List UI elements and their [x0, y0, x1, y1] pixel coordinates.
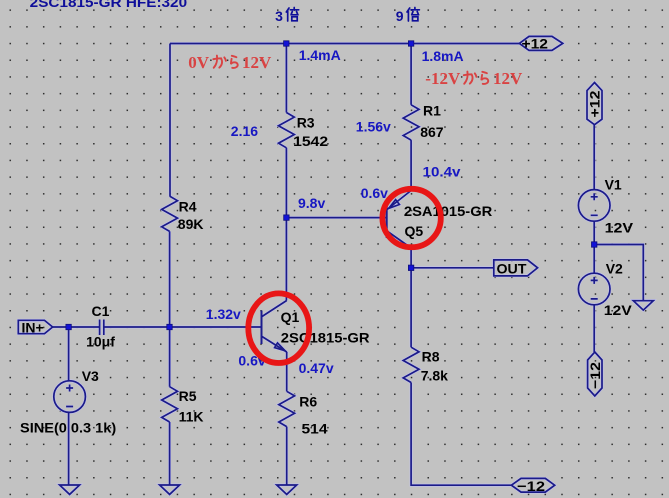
- junction node OUT: [408, 265, 413, 270]
- svg-text:10μf: 10μf: [86, 334, 115, 350]
- svg-text:V1: V1: [605, 177, 622, 193]
- svg-text:Q5: Q5: [405, 223, 424, 239]
- svg-text:12V: 12V: [604, 302, 633, 318]
- svg-text:1542: 1542: [293, 133, 328, 149]
- svg-text:Q1: Q1: [281, 309, 300, 325]
- svg-text:V2: V2: [606, 260, 623, 276]
- svg-text:7.8k: 7.8k: [421, 368, 448, 384]
- svg-text:11K: 11K: [179, 408, 204, 424]
- svg-text:R8: R8: [422, 349, 440, 365]
- svg-text:2.16: 2.16: [231, 123, 258, 139]
- svg-text:2SA1015-GR: 2SA1015-GR: [404, 203, 492, 219]
- svg-text:R1: R1: [423, 103, 441, 119]
- svg-text:0V: 0V: [188, 53, 210, 72]
- junction node supply mid: [592, 242, 597, 247]
- transistor Q5 base bar: [386, 206, 388, 238]
- svg-text:R6: R6: [299, 393, 317, 409]
- svg-text:9.8v: 9.8v: [298, 195, 325, 211]
- svg-text:+12: +12: [522, 36, 549, 52]
- svg-text:1.56v: 1.56v: [356, 118, 391, 134]
- svg-text:12V: 12V: [242, 53, 272, 72]
- svg-text:+12: +12: [587, 90, 603, 117]
- junction node top R3: [284, 41, 289, 46]
- kanji bai 2: [407, 8, 419, 22]
- junction node left branch IN: [167, 324, 172, 329]
- svg-text:514: 514: [302, 420, 328, 436]
- junction node IN/V3: [66, 324, 71, 329]
- svg-text:2SC1815-GR: 2SC1815-GR: [281, 330, 370, 346]
- svg-text:IN+: IN+: [22, 319, 44, 335]
- junction node top R1: [408, 41, 413, 46]
- svg-text:R3: R3: [297, 114, 315, 130]
- svg-text:−12: −12: [587, 362, 603, 389]
- red circle around Q1: [248, 293, 309, 363]
- svg-text:R4: R4: [179, 199, 197, 215]
- kanji bai 1: [286, 8, 298, 22]
- svg-text:OUT: OUT: [497, 260, 527, 276]
- svg-text:SINE(0 0.3 1k): SINE(0 0.3 1k): [20, 420, 116, 436]
- svg-text:C1: C1: [92, 303, 110, 319]
- svg-text:867: 867: [420, 124, 444, 140]
- svg-text:1.32v: 1.32v: [206, 306, 241, 322]
- svg-text:3: 3: [275, 8, 283, 24]
- svg-text:9: 9: [396, 8, 404, 24]
- red circle around Q5: [382, 189, 440, 247]
- svg-text:12V: 12V: [605, 220, 634, 236]
- svg-text:10.4v: 10.4v: [423, 163, 461, 179]
- svg-text:12V: 12V: [493, 69, 523, 88]
- svg-text:1.4mA: 1.4mA: [299, 47, 341, 63]
- svg-text:0.47v: 0.47v: [299, 360, 334, 376]
- transistor Q1 base bar: [261, 311, 263, 345]
- svg-text:0.6v: 0.6v: [361, 185, 388, 201]
- svg-text:89K: 89K: [178, 216, 204, 232]
- svg-text:2SC1815-GR HFE:320: 2SC1815-GR HFE:320: [30, 0, 188, 10]
- svg-text:1.8mA: 1.8mA: [422, 48, 464, 64]
- junction node 9.8v: [284, 215, 289, 220]
- svg-text:-12V: -12V: [425, 69, 461, 88]
- svg-text:V3: V3: [82, 368, 99, 384]
- svg-text:R5: R5: [179, 388, 197, 404]
- svg-text:−12: −12: [517, 478, 545, 494]
